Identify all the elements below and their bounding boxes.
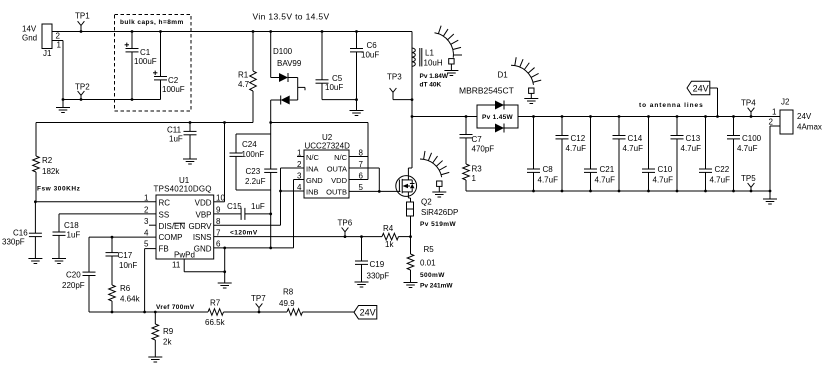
svg-text:14V: 14V xyxy=(22,25,37,34)
svg-text:100uF: 100uF xyxy=(134,57,157,66)
svg-text:2: 2 xyxy=(297,160,302,169)
svg-text:R6: R6 xyxy=(120,284,131,293)
svg-text:C1: C1 xyxy=(140,48,151,57)
svg-text:R5: R5 xyxy=(424,245,435,254)
svg-text:R7: R7 xyxy=(210,299,221,308)
svg-text:C5: C5 xyxy=(332,74,343,83)
svg-text:500mW: 500mW xyxy=(420,272,445,279)
svg-text:GND: GND xyxy=(306,176,323,185)
svg-text:OUTA: OUTA xyxy=(327,164,347,173)
svg-text:182k: 182k xyxy=(42,167,60,176)
svg-text:3: 3 xyxy=(144,217,149,226)
svg-text:FB: FB xyxy=(159,245,169,254)
svg-text:R9: R9 xyxy=(163,327,174,336)
svg-text:GND: GND xyxy=(194,245,212,254)
svg-text:1k: 1k xyxy=(385,240,394,249)
svg-text:C24: C24 xyxy=(242,140,257,149)
svg-text:C12: C12 xyxy=(571,134,586,143)
svg-text:INA: INA xyxy=(306,164,319,173)
svg-text:bulk caps, h=8mm: bulk caps, h=8mm xyxy=(120,19,184,26)
svg-text:C22: C22 xyxy=(715,165,730,174)
svg-text:10uF: 10uF xyxy=(325,83,343,92)
svg-text:C10: C10 xyxy=(658,165,673,174)
svg-text:24V: 24V xyxy=(693,84,709,94)
svg-text:9: 9 xyxy=(216,206,221,215)
svg-text:4: 4 xyxy=(297,183,302,192)
svg-text:8: 8 xyxy=(216,217,221,226)
svg-text:1: 1 xyxy=(772,108,777,117)
svg-text:4.7: 4.7 xyxy=(238,80,250,89)
svg-text:2.2uF: 2.2uF xyxy=(245,177,266,186)
svg-text:Pv 241mW: Pv 241mW xyxy=(420,283,453,290)
svg-text:TPS40210DGQ: TPS40210DGQ xyxy=(154,185,212,194)
svg-text:24V: 24V xyxy=(797,112,812,121)
svg-text:TP5: TP5 xyxy=(741,174,756,183)
svg-text:6: 6 xyxy=(216,240,221,249)
svg-text:BAV99: BAV99 xyxy=(277,59,302,68)
svg-text:1: 1 xyxy=(472,174,477,183)
svg-text:to antenna lines: to antenna lines xyxy=(639,102,704,109)
svg-text:SiR426DP: SiR426DP xyxy=(421,208,458,217)
svg-text:Vin 13.5V to 14.5V: Vin 13.5V to 14.5V xyxy=(253,12,330,22)
svg-text:4.7uF: 4.7uF xyxy=(710,176,731,185)
svg-text:10uF: 10uF xyxy=(361,51,379,60)
svg-text:C15: C15 xyxy=(227,202,242,211)
svg-text:N/C: N/C xyxy=(334,153,348,162)
svg-text:C21: C21 xyxy=(600,165,615,174)
svg-text:1: 1 xyxy=(144,194,149,203)
svg-text:10nF: 10nF xyxy=(119,261,137,270)
svg-text:PwPd: PwPd xyxy=(174,251,195,260)
svg-text:4.7uF: 4.7uF xyxy=(737,144,758,153)
svg-text:1: 1 xyxy=(57,41,62,50)
svg-text:4.7uF: 4.7uF xyxy=(595,176,616,185)
svg-text:L1: L1 xyxy=(425,49,434,58)
svg-text:J1: J1 xyxy=(43,49,52,58)
svg-text:MBRB2545CT: MBRB2545CT xyxy=(459,86,514,96)
svg-text:N/C: N/C xyxy=(306,153,320,162)
svg-text:7: 7 xyxy=(216,228,221,237)
svg-text:J2: J2 xyxy=(781,98,790,107)
svg-text:UCC27324D: UCC27324D xyxy=(305,142,351,151)
svg-text:Gnd: Gnd xyxy=(22,34,37,43)
svg-text:C18: C18 xyxy=(64,221,79,230)
svg-text:Vref 700mV: Vref 700mV xyxy=(156,304,195,311)
svg-text:100nF: 100nF xyxy=(242,150,265,159)
svg-text:C23: C23 xyxy=(246,167,261,176)
svg-text:VDD: VDD xyxy=(331,176,347,185)
svg-text:4.64k: 4.64k xyxy=(120,295,141,304)
svg-text:TP6: TP6 xyxy=(338,219,353,228)
svg-text:2k: 2k xyxy=(163,338,172,347)
svg-text:TP1: TP1 xyxy=(75,12,90,21)
svg-text:11: 11 xyxy=(172,261,181,270)
svg-text:4.7uF: 4.7uF xyxy=(623,144,644,153)
svg-text:R8: R8 xyxy=(283,288,294,297)
svg-text:4.7uF: 4.7uF xyxy=(681,144,702,153)
svg-text:TP2: TP2 xyxy=(75,83,90,92)
svg-text:COMP: COMP xyxy=(159,233,183,242)
svg-text:66.5k: 66.5k xyxy=(205,318,226,327)
svg-text:C19: C19 xyxy=(370,260,385,269)
svg-text:C13: C13 xyxy=(686,134,701,143)
svg-text:R4: R4 xyxy=(383,224,394,233)
svg-text:10uH: 10uH xyxy=(424,59,443,68)
svg-text:220pF: 220pF xyxy=(62,281,85,290)
svg-text:Fsw 300KHz: Fsw 300KHz xyxy=(37,186,81,193)
svg-text:TP3: TP3 xyxy=(387,73,402,82)
svg-text:C100: C100 xyxy=(742,134,762,143)
svg-text:1uF: 1uF xyxy=(67,231,81,240)
svg-text:SS: SS xyxy=(159,211,170,220)
svg-text:4.7uF: 4.7uF xyxy=(538,176,559,185)
svg-text:C17: C17 xyxy=(118,251,133,260)
svg-text:INB: INB xyxy=(306,187,319,196)
svg-text:C11: C11 xyxy=(167,126,182,135)
svg-text:R2: R2 xyxy=(42,156,53,165)
svg-text:330pF: 330pF xyxy=(367,272,390,281)
svg-text:R3: R3 xyxy=(472,165,483,174)
svg-text:RC: RC xyxy=(159,198,171,207)
svg-text:0.01: 0.01 xyxy=(420,259,436,268)
svg-text:4.7uF: 4.7uF xyxy=(566,144,587,153)
svg-text:2: 2 xyxy=(144,206,149,215)
svg-text:VDD: VDD xyxy=(195,198,212,207)
svg-text:Q2: Q2 xyxy=(421,198,432,207)
svg-text:C2: C2 xyxy=(168,76,179,85)
svg-text:100uF: 100uF xyxy=(162,85,185,94)
svg-text:TP4: TP4 xyxy=(741,99,756,108)
svg-text:VBP: VBP xyxy=(195,211,211,220)
svg-text:4.7uF: 4.7uF xyxy=(653,176,674,185)
svg-text:4Amax: 4Amax xyxy=(797,123,822,132)
svg-text:D100: D100 xyxy=(273,47,293,56)
svg-text:2: 2 xyxy=(769,118,774,127)
svg-text:330pF: 330pF xyxy=(2,238,25,247)
svg-text:C20: C20 xyxy=(66,271,81,280)
svg-text:4: 4 xyxy=(144,228,149,237)
svg-text:C6: C6 xyxy=(367,41,378,50)
svg-text:R1: R1 xyxy=(238,71,249,80)
svg-text:GDRV: GDRV xyxy=(189,222,213,231)
svg-text:C16: C16 xyxy=(13,229,28,238)
svg-text:Pv 1.45W: Pv 1.45W xyxy=(482,114,514,121)
svg-text:OUTB: OUTB xyxy=(326,187,347,196)
svg-text:1uF: 1uF xyxy=(169,135,183,144)
svg-text:TP7: TP7 xyxy=(251,294,266,303)
svg-text:C7: C7 xyxy=(472,135,483,144)
svg-text:Pv 1.84W: Pv 1.84W xyxy=(420,73,449,80)
svg-text:24V: 24V xyxy=(360,308,376,318)
svg-text:2: 2 xyxy=(56,32,61,41)
svg-text:dT 40K: dT 40K xyxy=(420,82,442,89)
svg-text:D1: D1 xyxy=(498,71,509,80)
svg-text:470pF: 470pF xyxy=(472,145,495,154)
svg-text:ISNS: ISNS xyxy=(193,233,212,242)
svg-text:49.9: 49.9 xyxy=(279,299,295,308)
svg-text:C8: C8 xyxy=(543,165,554,174)
svg-text:5: 5 xyxy=(144,240,149,249)
svg-text:<120mV: <120mV xyxy=(230,230,258,237)
svg-text:1uF: 1uF xyxy=(251,202,265,211)
svg-text:5: 5 xyxy=(359,183,364,192)
svg-text:C14: C14 xyxy=(628,134,643,143)
svg-text:Pv 519mW: Pv 519mW xyxy=(420,221,457,228)
